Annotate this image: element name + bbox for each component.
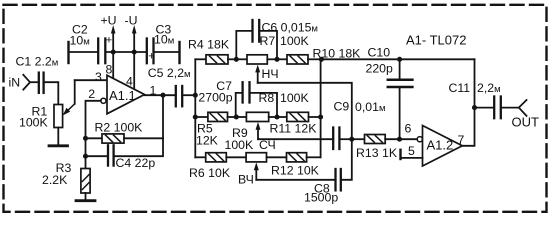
svg-text:ВЧ: ВЧ xyxy=(238,173,254,187)
wire pin 5 xyxy=(401,157,423,159)
wire R1 wiper to pin3 xyxy=(75,79,107,81)
svg-text:C1 2.2м: C1 2.2м xyxy=(16,55,59,69)
resistor R10 18K xyxy=(277,58,287,60)
terminal bar at C3 right xyxy=(178,42,180,63)
wire C3 to terminal xyxy=(155,51,179,53)
svg-text:C9: C9 xyxy=(334,100,350,114)
capacitor C9 0,01м xyxy=(332,128,334,150)
node R2 left junction xyxy=(83,136,88,141)
svg-text:R11 12K: R11 12K xyxy=(270,122,318,136)
wiper of R1 xyxy=(66,104,75,112)
wire pin 8 xyxy=(112,52,114,79)
svg-text:iN: iN xyxy=(9,76,21,90)
capacitor C6 0,015м xyxy=(236,31,251,59)
potentiometer R9 100K xyxy=(246,153,266,162)
svg-text:C4 22p: C4 22p xyxy=(116,156,156,170)
terminal bar at pin 5 xyxy=(399,150,401,159)
node +U junction xyxy=(111,49,116,54)
svg-text:100K: 100K xyxy=(19,116,49,130)
svg-text:8: 8 xyxy=(106,63,113,77)
resistor R12 10K xyxy=(287,153,307,162)
svg-text:6: 6 xyxy=(405,122,412,136)
node row2 left junction xyxy=(234,114,239,119)
svg-text:R4 18K: R4 18K xyxy=(188,38,230,52)
wire НЧ wiper to C9/R13 node xyxy=(258,83,352,139)
capacitor C5 2,2м xyxy=(175,86,177,106)
wiper of R8 (СЧ) xyxy=(257,127,259,139)
wire C2 to C3 (supply rail) xyxy=(106,51,145,53)
resistor R2 100K xyxy=(86,137,103,139)
node row2 bus junction xyxy=(193,114,198,119)
capacitor C11 2,2м xyxy=(475,107,494,109)
svg-text:3: 3 xyxy=(95,70,102,84)
potentiometer R8 100K xyxy=(236,116,246,118)
node row1 right junction xyxy=(274,57,279,62)
svg-text:R2 100K: R2 100K xyxy=(95,121,144,135)
capacitor C1 xyxy=(38,73,40,93)
svg-text:R12 10K: R12 10K xyxy=(271,164,320,178)
svg-text:R8: R8 xyxy=(259,91,275,105)
wire СЧ wiper to C9 xyxy=(258,138,332,140)
svg-text:220p: 220p xyxy=(366,61,394,75)
capacitor C10 220p xyxy=(399,59,401,79)
svg-text:R7: R7 xyxy=(260,34,276,48)
node -U junction xyxy=(132,49,137,54)
svg-text:R10 18K: R10 18K xyxy=(313,47,362,61)
power +U arrow xyxy=(112,32,114,52)
svg-text:-U: -U xyxy=(125,14,138,28)
wire right bus xyxy=(320,59,322,157)
wire output to R2/C4 xyxy=(162,95,164,138)
svg-text:1500p: 1500p xyxy=(304,191,338,205)
svg-text:100K: 100K xyxy=(280,34,310,48)
resistor R5 12K xyxy=(195,116,208,118)
wire left bus xyxy=(194,59,196,157)
capacitor C4 22p xyxy=(86,155,107,157)
resistor R4 18K xyxy=(195,58,206,60)
op-amp U A1.1 xyxy=(107,75,145,114)
ground under R3 xyxy=(85,193,87,201)
svg-text:5: 5 xyxy=(408,144,415,158)
capacitor C2 10м xyxy=(97,39,99,64)
svg-text:2,2м: 2,2м xyxy=(477,81,501,95)
wire pin 2 to feedback bus xyxy=(86,101,101,169)
capacitor C7 2700p xyxy=(236,93,242,117)
potentiometer R1 100K xyxy=(54,105,63,128)
wire pin 1 output xyxy=(145,94,176,96)
svg-text:C5 2,2м: C5 2,2м xyxy=(148,66,191,80)
resistor R3 2.2K xyxy=(81,169,90,194)
svg-text:1: 1 xyxy=(150,84,157,98)
svg-text:OUT: OUT xyxy=(512,114,540,129)
svg-text:2: 2 xyxy=(88,87,95,101)
power -U arrow xyxy=(133,32,135,52)
terminal bar at C2 left xyxy=(67,42,69,63)
svg-text:+: + xyxy=(148,50,154,62)
svg-text:C10: C10 xyxy=(368,45,391,59)
node C4 left junction xyxy=(83,154,88,159)
node C5 bus junction xyxy=(193,93,198,98)
svg-text:+: + xyxy=(106,34,112,46)
node C11 junction xyxy=(472,105,477,110)
svg-text:100K: 100K xyxy=(225,138,255,152)
resistor R6 10K xyxy=(195,156,205,158)
svg-text:10м: 10м xyxy=(154,33,174,47)
node C10 top junction xyxy=(397,57,402,62)
wire pin 4 xyxy=(133,52,135,89)
node OUT connector xyxy=(519,100,527,116)
svg-text:10м: 10м xyxy=(70,34,90,48)
wire pin 6 xyxy=(400,138,418,140)
svg-text:НЧ: НЧ xyxy=(262,67,279,81)
node pin6 junction xyxy=(397,137,402,142)
resistor R13 1K xyxy=(352,138,365,140)
wiper of R9 (ВЧ) xyxy=(255,168,257,180)
wire ВЧ wiper to C8 xyxy=(256,179,334,181)
svg-text:A1.1: A1.1 xyxy=(109,88,136,103)
node output junction xyxy=(160,93,165,98)
wire C1 to R1 top xyxy=(45,82,59,104)
svg-text:12K: 12K xyxy=(196,134,219,148)
capacitor C8 1500p xyxy=(334,169,336,190)
node iN (input connector) xyxy=(23,75,30,90)
svg-text:100K: 100K xyxy=(280,91,310,105)
svg-text:СЧ: СЧ xyxy=(259,138,276,152)
svg-text:+U: +U xyxy=(101,14,117,28)
node row1 left junction xyxy=(234,57,239,62)
svg-text:A1- TL072: A1- TL072 xyxy=(406,33,466,48)
wire iN to C1 xyxy=(30,81,38,83)
svg-text:2700p: 2700p xyxy=(198,91,232,105)
ground under R1 xyxy=(57,128,59,146)
node C9/R13 junction xyxy=(349,137,354,142)
capacitor C3 10м xyxy=(146,39,148,64)
node row2 right junction xyxy=(274,114,279,119)
svg-text:2.2K: 2.2K xyxy=(42,173,68,187)
svg-text:0,01м: 0,01м xyxy=(355,100,385,114)
wiper of R7 (НЧ) xyxy=(257,70,259,83)
svg-text:4: 4 xyxy=(126,75,133,89)
node right bus row2 junction xyxy=(318,114,323,119)
svg-text:R6 10K: R6 10K xyxy=(189,166,231,180)
wire pin 7 output xyxy=(462,59,474,146)
svg-text:C11: C11 xyxy=(449,81,471,95)
svg-text:7: 7 xyxy=(458,133,465,147)
wire C5 to left bus xyxy=(183,94,195,96)
resistor R11 12K xyxy=(277,116,287,118)
pin 2 inversion circle xyxy=(101,98,106,103)
node feedback top junction xyxy=(319,57,324,62)
svg-text:C6 0,015м: C6 0,015м xyxy=(262,20,318,34)
op-amp U A1.2 xyxy=(423,126,463,167)
wire feedback top rail xyxy=(321,58,474,60)
pin 6 inversion circle xyxy=(417,137,422,142)
wire bar to C2 xyxy=(69,51,98,53)
svg-text:A1.2: A1.2 xyxy=(427,138,454,153)
potentiometer R7 100K xyxy=(236,58,247,60)
svg-text:R13 1K: R13 1K xyxy=(356,146,398,160)
